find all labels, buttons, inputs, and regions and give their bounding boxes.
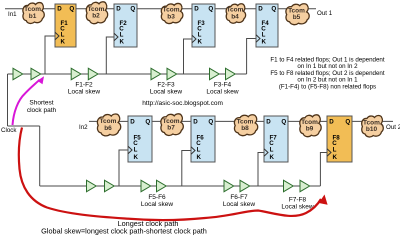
svg-text:http://asic-soc.blogspot.com: http://asic-soc.blogspot.com: [142, 100, 223, 107]
clock buffer 12 bottom rail: [157, 180, 167, 191]
clock buffer 5 top rail: [151, 68, 161, 79]
svg-text:L: L: [61, 32, 65, 39]
svg-text:b5: b5: [293, 14, 301, 21]
svg-text:L: L: [197, 147, 201, 154]
svg-text:K: K: [120, 39, 125, 46]
svg-text:b3: b3: [167, 13, 175, 20]
svg-text:K: K: [262, 39, 267, 46]
svg-text:Global skew=longest clock path: Global skew=longest clock path-shortest …: [41, 227, 207, 236]
svg-text:Q: Q: [281, 118, 286, 125]
svg-text:Clock: Clock: [1, 127, 17, 134]
svg-text:D: D: [57, 6, 62, 13]
svg-text:b10: b10: [366, 126, 378, 133]
wire clock stub to F4: [247, 39, 256, 75]
clock buffer 13 bottom rail: [224, 180, 234, 191]
wire top clock rail: [8, 73, 247, 75]
label F2-F3 local skew: [150, 82, 182, 96]
svg-text:clock path: clock path: [27, 107, 57, 114]
clock buffer 10 bottom rail: [105, 180, 115, 191]
clock buffer 15 bottom rail: [284, 180, 294, 191]
flip-flop F6: [191, 116, 215, 162]
clock buffer 14 bottom rail: [240, 180, 250, 191]
clock buffer 9 bottom rail: [87, 180, 97, 191]
svg-text:D: D: [130, 118, 135, 125]
svg-text:b2: b2: [92, 13, 100, 20]
svg-text:F5-F6: F5-F6: [148, 194, 166, 201]
wire clock stub to F7: [258, 153, 264, 187]
svg-text:Local skew: Local skew: [281, 204, 313, 211]
clock buffer 16 bottom rail: [300, 180, 310, 191]
svg-text:Local skew: Local skew: [68, 89, 100, 96]
svg-text:In1: In1: [8, 11, 17, 18]
label F1-F2 local skew: [68, 82, 100, 96]
svg-text:Q: Q: [208, 118, 213, 125]
svg-text:L: L: [120, 32, 124, 39]
wire clock riser to top rail: [7, 74, 9, 126]
combinational cloud b8: [234, 115, 257, 136]
label F6-F7 local skew: [223, 194, 255, 208]
svg-text:Out 1: Out 1: [317, 10, 333, 17]
wire bottom data path In2 to Out2: [89, 120, 393, 122]
flip-flop F2: [114, 4, 137, 47]
combinational cloud b9: [300, 115, 321, 137]
wire clock stub to F3: [184, 39, 193, 74]
label F3-F4 local skew: [206, 82, 238, 96]
svg-text:D: D: [329, 118, 334, 125]
arrow longest clock path (red): [19, 128, 328, 220]
clock buffer 7 top rail: [210, 68, 220, 79]
svg-text:Q: Q: [69, 6, 74, 13]
svg-text:Q: Q: [345, 118, 350, 125]
svg-text:Local skew: Local skew: [150, 89, 182, 96]
flip-flop F1: [55, 4, 76, 47]
combinational cloud b6: [97, 114, 120, 136]
clock buffer 4 top rail: [88, 68, 98, 79]
svg-text:b8: b8: [241, 125, 249, 132]
svg-text:D: D: [258, 6, 263, 13]
svg-text:F6-F7: F6-F7: [230, 194, 248, 201]
clock buffer 6 top rail: [167, 68, 177, 79]
flip-flop F8: [327, 116, 352, 162]
svg-text:In2: In2: [79, 124, 88, 131]
svg-text:F1-F2: F1-F2: [75, 82, 93, 89]
svg-text:b9: b9: [306, 126, 314, 133]
wire clock stub to F5: [119, 150, 128, 186]
svg-text:Q: Q: [130, 6, 135, 13]
svg-text:Shortest: Shortest: [29, 100, 53, 107]
wire clock stub to F1: [45, 36, 55, 74]
flip-flop F5: [128, 116, 152, 162]
wire bottom clock rail: [40, 185, 321, 187]
svg-text:L: L: [333, 147, 337, 154]
combinational cloud b5: [286, 4, 309, 25]
svg-text:(F1-F4) to (F5-F8) non related: (F1-F4) to (F5-F8) non related flops: [279, 83, 376, 90]
svg-text:F7-F8: F7-F8: [289, 197, 307, 204]
svg-text:b6: b6: [104, 125, 112, 132]
wire top data path In1 to Out1: [5, 8, 316, 10]
clock buffer 1 top rail: [13, 68, 23, 79]
svg-text:L: L: [198, 32, 202, 39]
svg-text:b4: b4: [231, 13, 239, 20]
svg-text:K: K: [198, 39, 203, 46]
svg-text:D: D: [116, 6, 121, 13]
svg-text:D: D: [266, 118, 271, 125]
combinational cloud b7: [161, 114, 183, 136]
svg-text:K: K: [333, 154, 338, 161]
combinational cloud b10: [362, 115, 384, 136]
svg-text:K: K: [197, 154, 202, 161]
label F5-F6 local skew: [141, 194, 173, 208]
wire clock stub to F2: [106, 37, 114, 74]
svg-text:D: D: [194, 6, 199, 13]
svg-text:Q: Q: [208, 6, 213, 13]
wire clock stub from Clock label: [8, 125, 40, 127]
wire clock stub to F6: [182, 151, 191, 187]
svg-text:Local skew: Local skew: [223, 201, 255, 208]
svg-text:K: K: [61, 39, 66, 46]
svg-text:Local skew: Local skew: [141, 201, 173, 208]
clock buffer 11 bottom rail: [141, 180, 151, 191]
svg-text:L: L: [262, 32, 266, 39]
flip-flop F7: [264, 116, 288, 162]
svg-text:Local skew: Local skew: [206, 89, 238, 96]
svg-text:Q: Q: [145, 118, 150, 125]
flip-flop F4: [256, 4, 278, 47]
svg-text:Q: Q: [271, 6, 276, 13]
svg-text:F2-F3: F2-F3: [157, 82, 175, 89]
clock buffer 8 top rail: [226, 68, 236, 79]
svg-text:D: D: [193, 118, 198, 125]
svg-text:b7: b7: [167, 124, 175, 131]
clock buffer 2 top rail: [31, 68, 41, 79]
svg-text:K: K: [134, 154, 139, 161]
combinational cloud b2: [86, 2, 107, 24]
label shortest clock path: [27, 100, 57, 115]
label related flops note: [270, 57, 384, 91]
wire clock stub to F8: [320, 153, 327, 187]
svg-text:K: K: [270, 154, 275, 161]
svg-text:Out 2: Out 2: [386, 124, 400, 131]
svg-text:F3-F4: F3-F4: [214, 82, 232, 89]
svg-text:L: L: [270, 147, 274, 154]
svg-text:b1: b1: [29, 13, 37, 20]
flip-flop F3: [192, 4, 215, 47]
combinational cloud b1: [23, 3, 44, 24]
label F7-F8 local skew: [281, 197, 313, 211]
combinational cloud b3: [161, 3, 183, 23]
svg-text:L: L: [134, 147, 138, 154]
combinational cloud b4: [226, 4, 245, 23]
arrow shortest clock path (magenta): [13, 76, 45, 125]
wire clock drop to bottom rail: [39, 126, 41, 186]
clock buffer 3 top rail: [71, 68, 81, 79]
